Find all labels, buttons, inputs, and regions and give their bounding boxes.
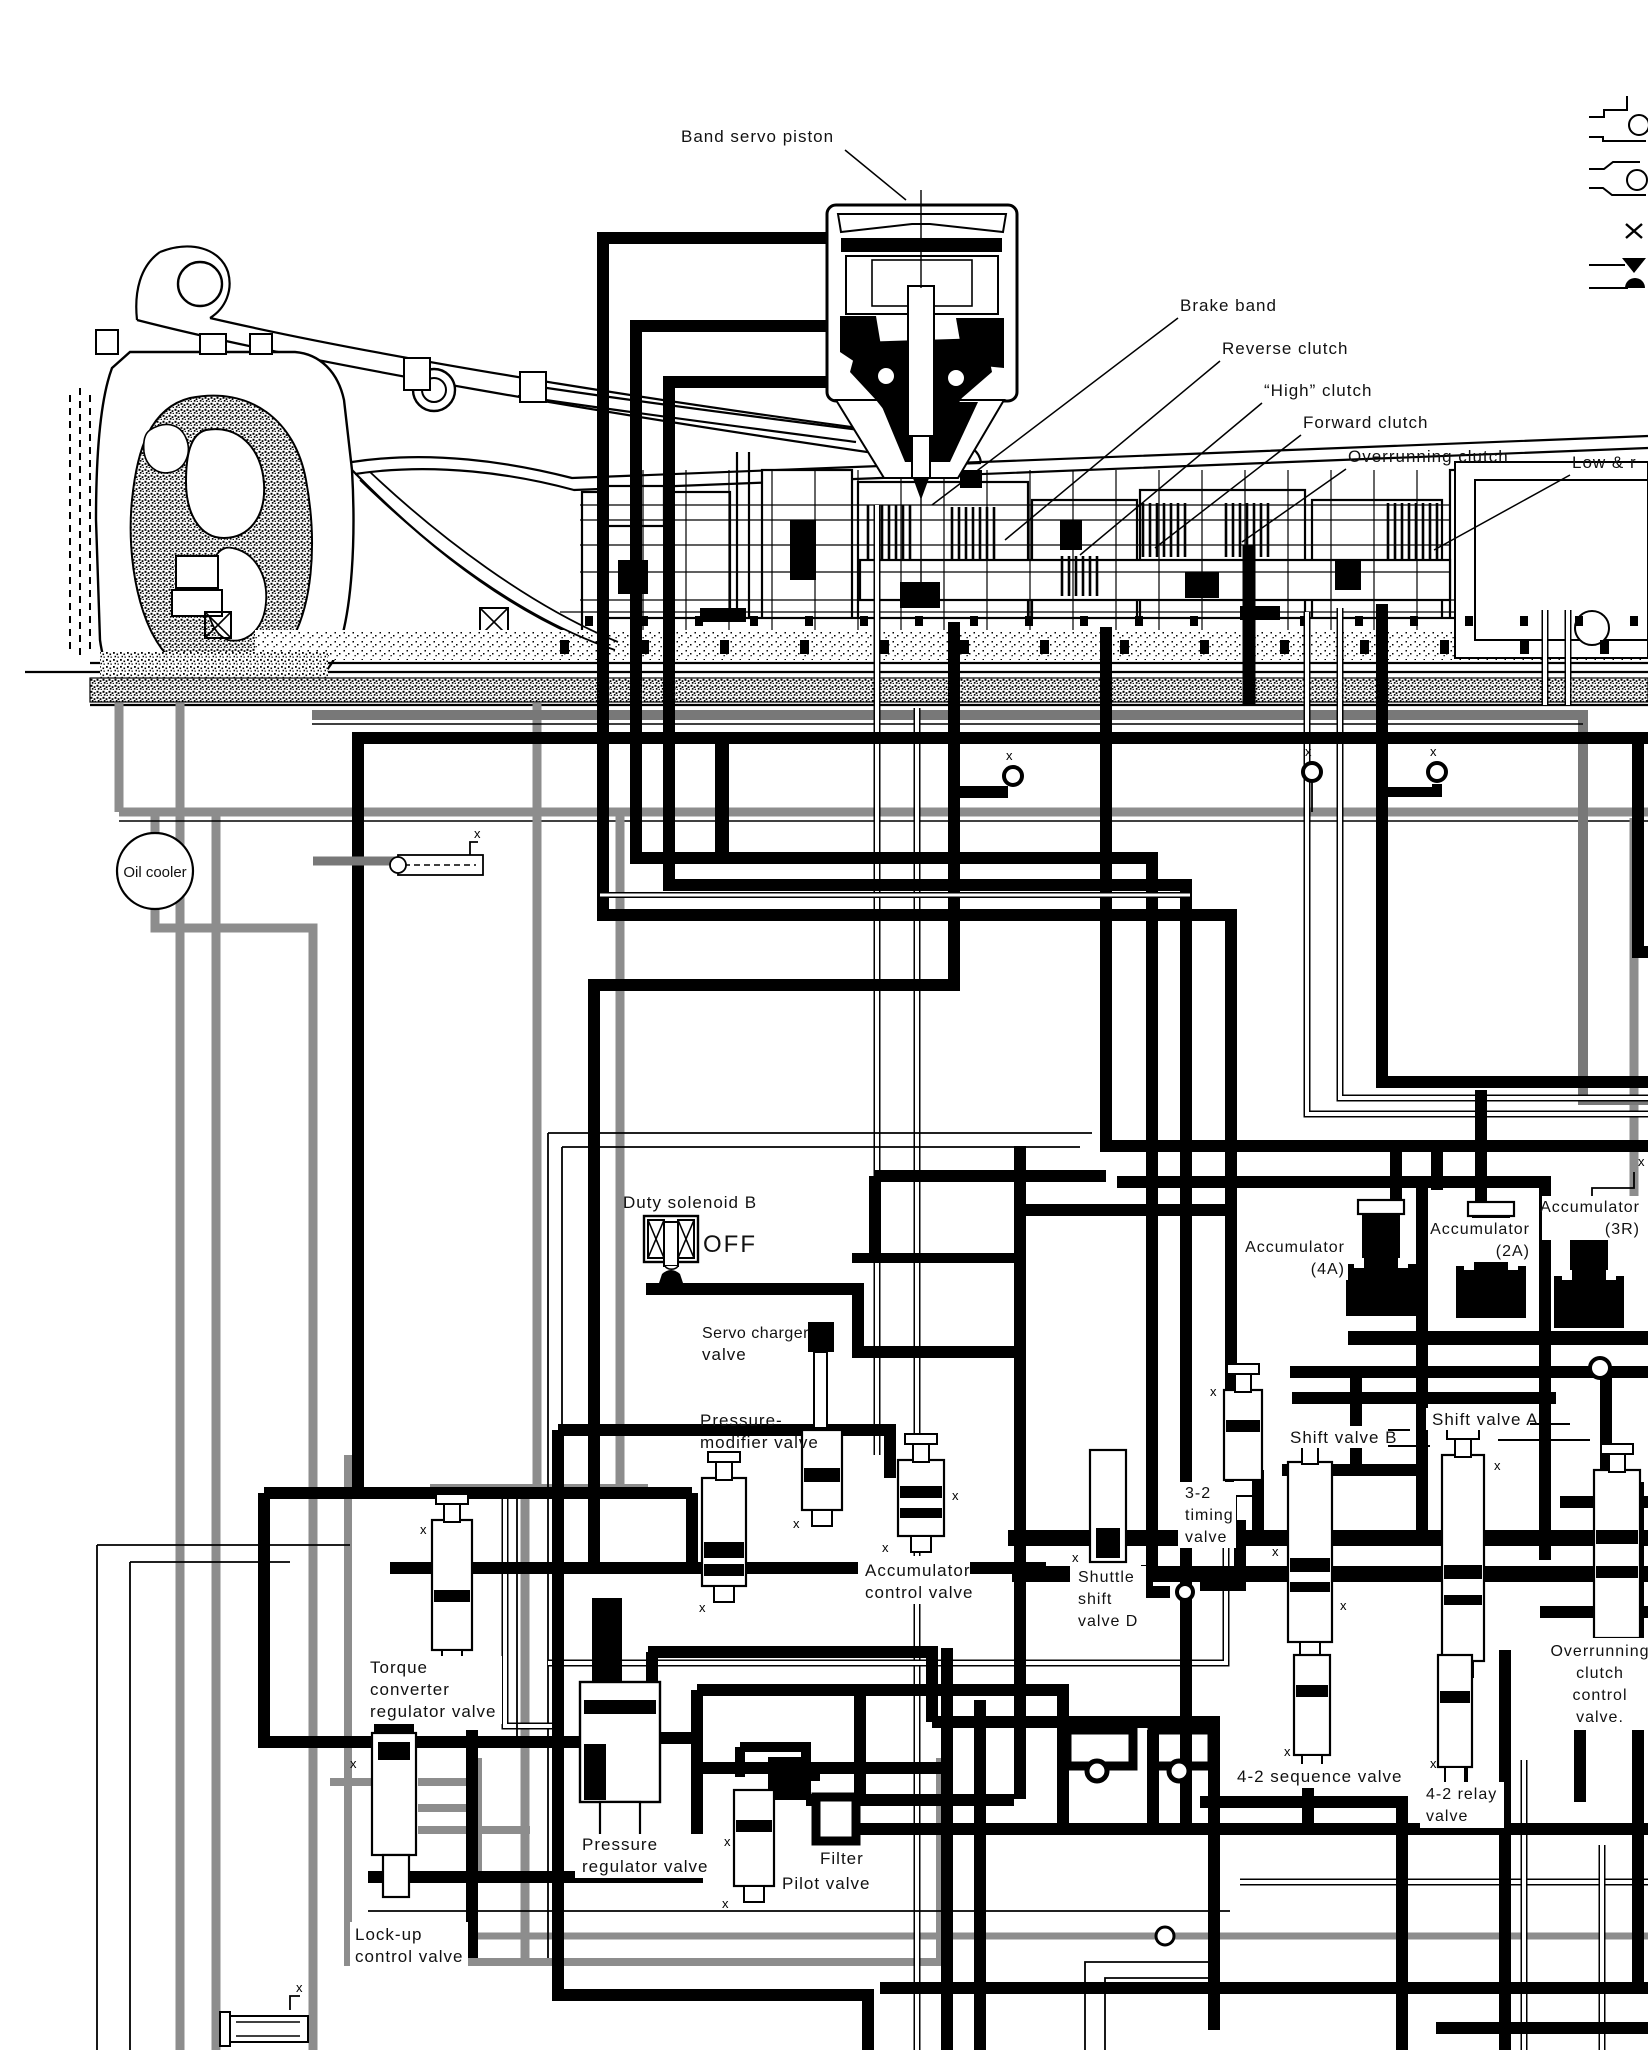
wire accumulator bottom band [1348, 1331, 1648, 1345]
grey vertical right edge [1630, 818, 1639, 1205]
svg-text:Filter: Filter [820, 1849, 864, 1868]
svg-text:Torque: Torque [370, 1658, 428, 1677]
wire 3R drop stub [1600, 1378, 1612, 1482]
svg-text:(2A): (2A) [1496, 1243, 1530, 1260]
thin line under grey y821 [119, 820, 1648, 822]
svg-text:Oil cooler: Oil cooler [123, 864, 186, 881]
svg-text:x: x [882, 1540, 889, 1555]
legend symbol line-to-circle 1 [1589, 96, 1648, 141]
seal dots along shaft [560, 640, 569, 654]
wire y1538 band [1008, 1530, 1648, 1546]
band servo piston stem [908, 286, 934, 497]
wire x1580 vertical [1574, 1655, 1586, 1802]
fitting circle D [1590, 1358, 1610, 1378]
svg-text:valve: valve [702, 1345, 747, 1364]
svg-text:x: x [1580, 1532, 1587, 1547]
svg-text:x: x [1430, 1756, 1437, 1771]
torque converter regulator valve [432, 1520, 472, 1650]
thin pipe nested corner x1307 [1307, 612, 1648, 1114]
grey pipe vertical x180 [176, 703, 185, 2050]
wire y1470 upper band [1282, 1464, 1422, 1476]
wire y1738 link [655, 1732, 697, 1744]
main gear case outline [25, 436, 1648, 705]
wire duty solenoid base line [646, 1289, 1020, 1352]
wire x860 link [854, 1690, 866, 1800]
wire y1574 band [1012, 1566, 1648, 1582]
label torque converter regulator valve [362, 1656, 502, 1724]
pilot valve [734, 1790, 774, 1886]
wire x1422 drop [1416, 1182, 1428, 1538]
wire pilot valve surround black mass [768, 1757, 806, 1799]
wire x652 drop [646, 1652, 658, 1742]
svg-text:4-2 relay: 4-2 relay [1426, 1786, 1497, 1803]
svg-text:x: x [1340, 1598, 1347, 1613]
wire pressure reg to mesh [648, 1652, 932, 1722]
thin horizontal y1911 [368, 1910, 1230, 1912]
wire x947 vertical [941, 1648, 953, 2050]
svg-text:x: x [1494, 1458, 1501, 1473]
wire shift valve A tail [1456, 1665, 1468, 1829]
label 3-2 timing valve [1178, 1482, 1236, 1548]
wire y1372 band [1290, 1366, 1648, 1378]
wire x1356 drop [1350, 1372, 1362, 1470]
circuit box border left [97, 1545, 350, 2050]
wire y1612 right stub [1540, 1606, 1648, 1618]
filter [816, 1797, 856, 1841]
svg-text:Pressure-: Pressure- [700, 1411, 783, 1430]
wire x558 long vertical [558, 1430, 868, 2050]
wire pilot feed y1768 [700, 1762, 947, 1774]
svg-text:x: x [296, 1980, 303, 1995]
accumulator control valve [898, 1460, 944, 1536]
svg-text:(3R): (3R) [1605, 1221, 1640, 1238]
wire y1258 link [852, 1253, 1020, 1263]
thin pipe x917 long vertical [914, 708, 921, 2050]
4-2 sequence valve bottom fittings [1067, 1730, 1133, 1766]
wire solenoid to loop [875, 1176, 1106, 1258]
svg-text:x: x [1272, 1544, 1279, 1559]
svg-text:OFF: OFF [703, 1231, 757, 1258]
wire accumulator 2A short stub [1431, 1146, 1443, 1190]
gear case vertical rib details [599, 470, 601, 658]
oil cooler [117, 833, 193, 909]
wire long main line y738 [358, 738, 1648, 1493]
svg-text:Reverse clutch: Reverse clutch [1222, 339, 1348, 358]
svg-text:Accumulator: Accumulator [1430, 1221, 1530, 1238]
svg-text:x: x [1305, 744, 1312, 759]
bell housing inner curves [360, 472, 618, 650]
legend arrow symbol 1 [1589, 264, 1625, 266]
thin pair y895 [600, 892, 1190, 898]
thin pipe bottom right x1524 [1521, 1760, 1528, 2050]
label accumulator 3R [1542, 1196, 1642, 1240]
servo charger valve [808, 1322, 834, 1352]
pressure regulator valve [592, 1598, 622, 1682]
grey oil pan band under case [90, 678, 1648, 702]
thin pipe x1340 from case with right turn [1340, 608, 1648, 1098]
wire case drop x1382 [1382, 604, 1648, 1082]
pressure tap bracket on grey line [398, 855, 483, 875]
converter hub details [172, 556, 508, 638]
svg-text:valve.: valve. [1576, 1709, 1624, 1726]
lock-up valve grey channels [330, 1778, 372, 1786]
wire y1182 to right drop [1117, 1182, 1545, 1560]
svg-text:Shift valve B: Shift valve B [1290, 1428, 1398, 1447]
svg-text:x: x [1006, 748, 1013, 763]
grey stub cooler top [151, 812, 160, 836]
grey pipe y715 long with right drop [312, 715, 1648, 1100]
svg-text:Lock-up: Lock-up [355, 1925, 422, 1944]
wire center branch to fitting [954, 786, 1008, 798]
wire TCR cross line [390, 1562, 1046, 1574]
wire x472 drop [466, 1730, 478, 1958]
wire overrunning feed [1560, 1496, 1648, 1508]
grey pipe vertical x620 [616, 812, 625, 1489]
wire bottom band y1988 [880, 1982, 1648, 1994]
svg-text:valve: valve [1185, 1529, 1227, 1546]
thin pipe y1663 to 3-2 timing valve [548, 1515, 1226, 1663]
pressure-modifier valve [702, 1478, 746, 1586]
wire shift valve B tail [1302, 1648, 1314, 1829]
svg-text:Pressure: Pressure [582, 1835, 658, 1854]
grey channel under torque converter regulator valve [430, 1484, 648, 1494]
svg-text:x: x [1284, 1744, 1291, 1759]
thin servo rod line x877 [874, 505, 881, 1455]
svg-text:Accumulator: Accumulator [1540, 1199, 1640, 1216]
svg-text:Low & r: Low & r [1572, 453, 1637, 472]
wire big loop x1106 [1106, 627, 1648, 1146]
label accumulator 2A [1432, 1218, 1532, 1262]
svg-text:valve D: valve D [1078, 1613, 1138, 1630]
bottom right nested corners [1085, 1962, 1220, 2050]
grey speckled fitting on bottom line [1156, 1927, 1174, 1945]
gear case long horizontal details [560, 505, 1640, 655]
wire x1153 link [1147, 1730, 1159, 1826]
svg-text:x: x [350, 1756, 357, 1771]
band servo piston body [827, 205, 1017, 478]
legend symbol line-to-circle 2 [1589, 162, 1647, 195]
svg-text:control valve: control valve [355, 1947, 463, 1966]
grey pipe vertical x216 [212, 812, 221, 2050]
grey stub to tap bracket [313, 857, 398, 866]
grey horizontal main y812 [119, 808, 1648, 817]
svg-text:x: x [690, 1532, 697, 1547]
label shuttle shift valve D [1070, 1566, 1146, 1634]
label pilot valve [776, 1872, 868, 1894]
wire x980 vertical [974, 1700, 986, 2050]
wire 3-2 bottom loop [1200, 1520, 1240, 1585]
grey pipe vertical x537 [533, 703, 542, 1489]
legend x symbol [1626, 224, 1642, 238]
label overrunning clutch control valve [1550, 1638, 1646, 1730]
transmission right end housing [1455, 462, 1648, 658]
svg-text:x: x [1072, 1550, 1079, 1565]
label filter [812, 1846, 864, 1868]
svg-text:x: x [1638, 1154, 1645, 1169]
svg-text:“High” clutch: “High” clutch [1264, 381, 1372, 400]
circuit box border top [548, 1133, 1092, 1958]
shift valve A [1442, 1455, 1484, 1661]
wire x1638 lower vertical [1632, 1482, 1644, 1988]
wire drop x692 [686, 1493, 698, 1568]
transmission mounting bracket arm [136, 246, 981, 464]
label pressure regulator valve [575, 1834, 715, 1878]
label lock-up control valve [350, 1922, 468, 1968]
wire y1210 cross [1020, 1204, 1231, 1216]
wire center shaft feed [594, 622, 954, 1568]
thin pipe x1568 short [1565, 610, 1572, 705]
svg-text:Pilot valve: Pilot valve [782, 1874, 870, 1893]
wire x1505 vertical [1499, 1650, 1511, 2050]
seal dots second row [585, 616, 593, 626]
wire TCR short band [433, 1660, 490, 1676]
svg-text:Overrunning clutch: Overrunning clutch [1348, 447, 1509, 466]
accumulator 4A [1358, 1200, 1404, 1214]
label shift valve B [1284, 1426, 1388, 1448]
wire y1430 into accumulator control [558, 1430, 890, 1478]
clutch plate packs (hatching) [868, 505, 910, 561]
label 4-2 relay valve [1420, 1782, 1504, 1828]
wire y1717 loop [932, 1722, 1214, 2030]
wire filter line y1829 [856, 1823, 1648, 1835]
label shift valve A [1426, 1408, 1530, 1430]
svg-text:converter: converter [370, 1680, 450, 1699]
4-2 relay valve [1438, 1655, 1472, 1767]
grey pipe oil cooler loop [155, 908, 313, 2050]
svg-text:clutch: clutch [1576, 1665, 1624, 1682]
wire bottom right y2028 [1436, 2022, 1648, 2034]
thin pipe bottom right x1602 [1599, 1845, 1606, 2050]
wire accumulator 4A stem [1390, 1146, 1402, 1208]
fitting circle A [1004, 767, 1022, 785]
svg-text:x: x [420, 1522, 427, 1537]
label accumulator 4A [1248, 1236, 1348, 1280]
wire elbow to fitting B [1382, 784, 1437, 792]
wire x1258 drop [1252, 1470, 1264, 1538]
svg-text:Band servo piston: Band servo piston [681, 127, 834, 146]
wire servo line 2 [636, 326, 1152, 1574]
lock-up control valve [374, 1719, 414, 1733]
wire servo line 1 [603, 238, 1231, 1538]
svg-text:(4A): (4A) [1311, 1261, 1345, 1278]
svg-text:valve: valve [1426, 1808, 1468, 1825]
wire y1877 loop [368, 1690, 697, 1877]
wire y1493 cross line [264, 1487, 692, 1499]
wire y1697 line [697, 1690, 1063, 1826]
gear case internal structures [582, 492, 730, 652]
wire x1020 long vertical [1014, 1146, 1026, 1799]
wire y1398 band [1292, 1392, 1556, 1404]
svg-text:Servo charger: Servo charger [702, 1325, 809, 1342]
wire servo line 3 [669, 382, 1186, 1829]
torque converter housing outline [96, 352, 353, 686]
accumulator 3R [1566, 1212, 1612, 1226]
3-2 timing valve [1224, 1390, 1262, 1480]
flexplate dashed lines (left) [70, 388, 90, 660]
svg-text:x: x [1210, 1384, 1217, 1399]
svg-text:Forward clutch: Forward clutch [1303, 413, 1428, 432]
wire drop x722 from case [715, 738, 729, 864]
thin stair lines between shift valves [1332, 1424, 1590, 1446]
svg-text:modifier valve: modifier valve [700, 1433, 819, 1452]
svg-text:x: x [722, 1896, 729, 1911]
gear case dark hub accents [618, 470, 1481, 622]
wire y1800 left part [806, 1794, 1014, 1806]
grey horizontal bottom y1936 [455, 1933, 1648, 1940]
svg-text:Overrunning: Overrunning [1550, 1643, 1648, 1660]
shift valve B [1288, 1462, 1332, 1642]
converter top studs [96, 330, 546, 402]
svg-text:Brake band: Brake band [1180, 296, 1277, 315]
fitting circle C [1303, 763, 1321, 781]
shuttle shift valve D [1090, 1450, 1126, 1562]
svg-text:x: x [1430, 744, 1437, 759]
overrunning clutch control valve [1594, 1470, 1640, 1638]
thin pipe bottom right y1882 [1240, 1879, 1648, 1886]
svg-text:x: x [724, 1834, 731, 1849]
label accumulator control valve [858, 1556, 970, 1604]
svg-text:timing: timing [1185, 1507, 1234, 1524]
svg-text:regulator valve: regulator valve [582, 1857, 709, 1876]
wire 4-2 connector [1200, 1802, 1402, 2050]
wire case stub x1249 [1243, 545, 1256, 705]
svg-text:shift: shift [1078, 1591, 1112, 1608]
small component bottom left [220, 2012, 308, 2046]
svg-text:x: x [952, 1488, 959, 1503]
torque converter stippled torus [131, 396, 312, 675]
wire left drop to lock-up [264, 1493, 584, 1742]
gear case shaft speckle band [255, 630, 1648, 660]
wire right edge vertical [1632, 738, 1648, 952]
svg-text:x: x [793, 1516, 800, 1531]
svg-text:Shift valve A: Shift valve A [1432, 1410, 1539, 1429]
svg-text:Duty solenoid B: Duty solenoid B [623, 1193, 757, 1212]
4-2 sequence valve [1294, 1655, 1330, 1755]
svg-text:Accumulator: Accumulator [1245, 1239, 1345, 1256]
label 4-2 sequence valve [1230, 1764, 1396, 1788]
accumulator 2A [1468, 1202, 1514, 1216]
svg-text:x: x [474, 826, 481, 841]
speckle under converter housing [100, 652, 328, 696]
svg-text:Shuttle: Shuttle [1078, 1569, 1135, 1586]
svg-text:control valve: control valve [865, 1583, 973, 1602]
svg-text:regulator valve: regulator valve [370, 1702, 497, 1721]
lock-up control valve grey box border [348, 1455, 940, 1962]
thin bundle near pressure regulator [505, 1493, 560, 1726]
duty solenoid B [644, 1216, 698, 1286]
wire pilot valve surround [740, 1747, 806, 1795]
wire accumulator 2A stem [1475, 1090, 1487, 1215]
svg-text:control: control [1572, 1687, 1627, 1704]
grey pipe vertical x119 into cooler [115, 703, 124, 812]
svg-text:Accumulator: Accumulator [865, 1561, 970, 1580]
svg-text:4-2 sequence valve: 4-2 sequence valve [1237, 1767, 1402, 1786]
fitting circle B [1428, 763, 1446, 781]
grey pipe vertical x525 lower [521, 1489, 530, 1958]
svg-text:3-2: 3-2 [1185, 1485, 1211, 1502]
svg-text:x: x [699, 1600, 706, 1615]
legend arrow symbol 2 [1589, 287, 1628, 289]
